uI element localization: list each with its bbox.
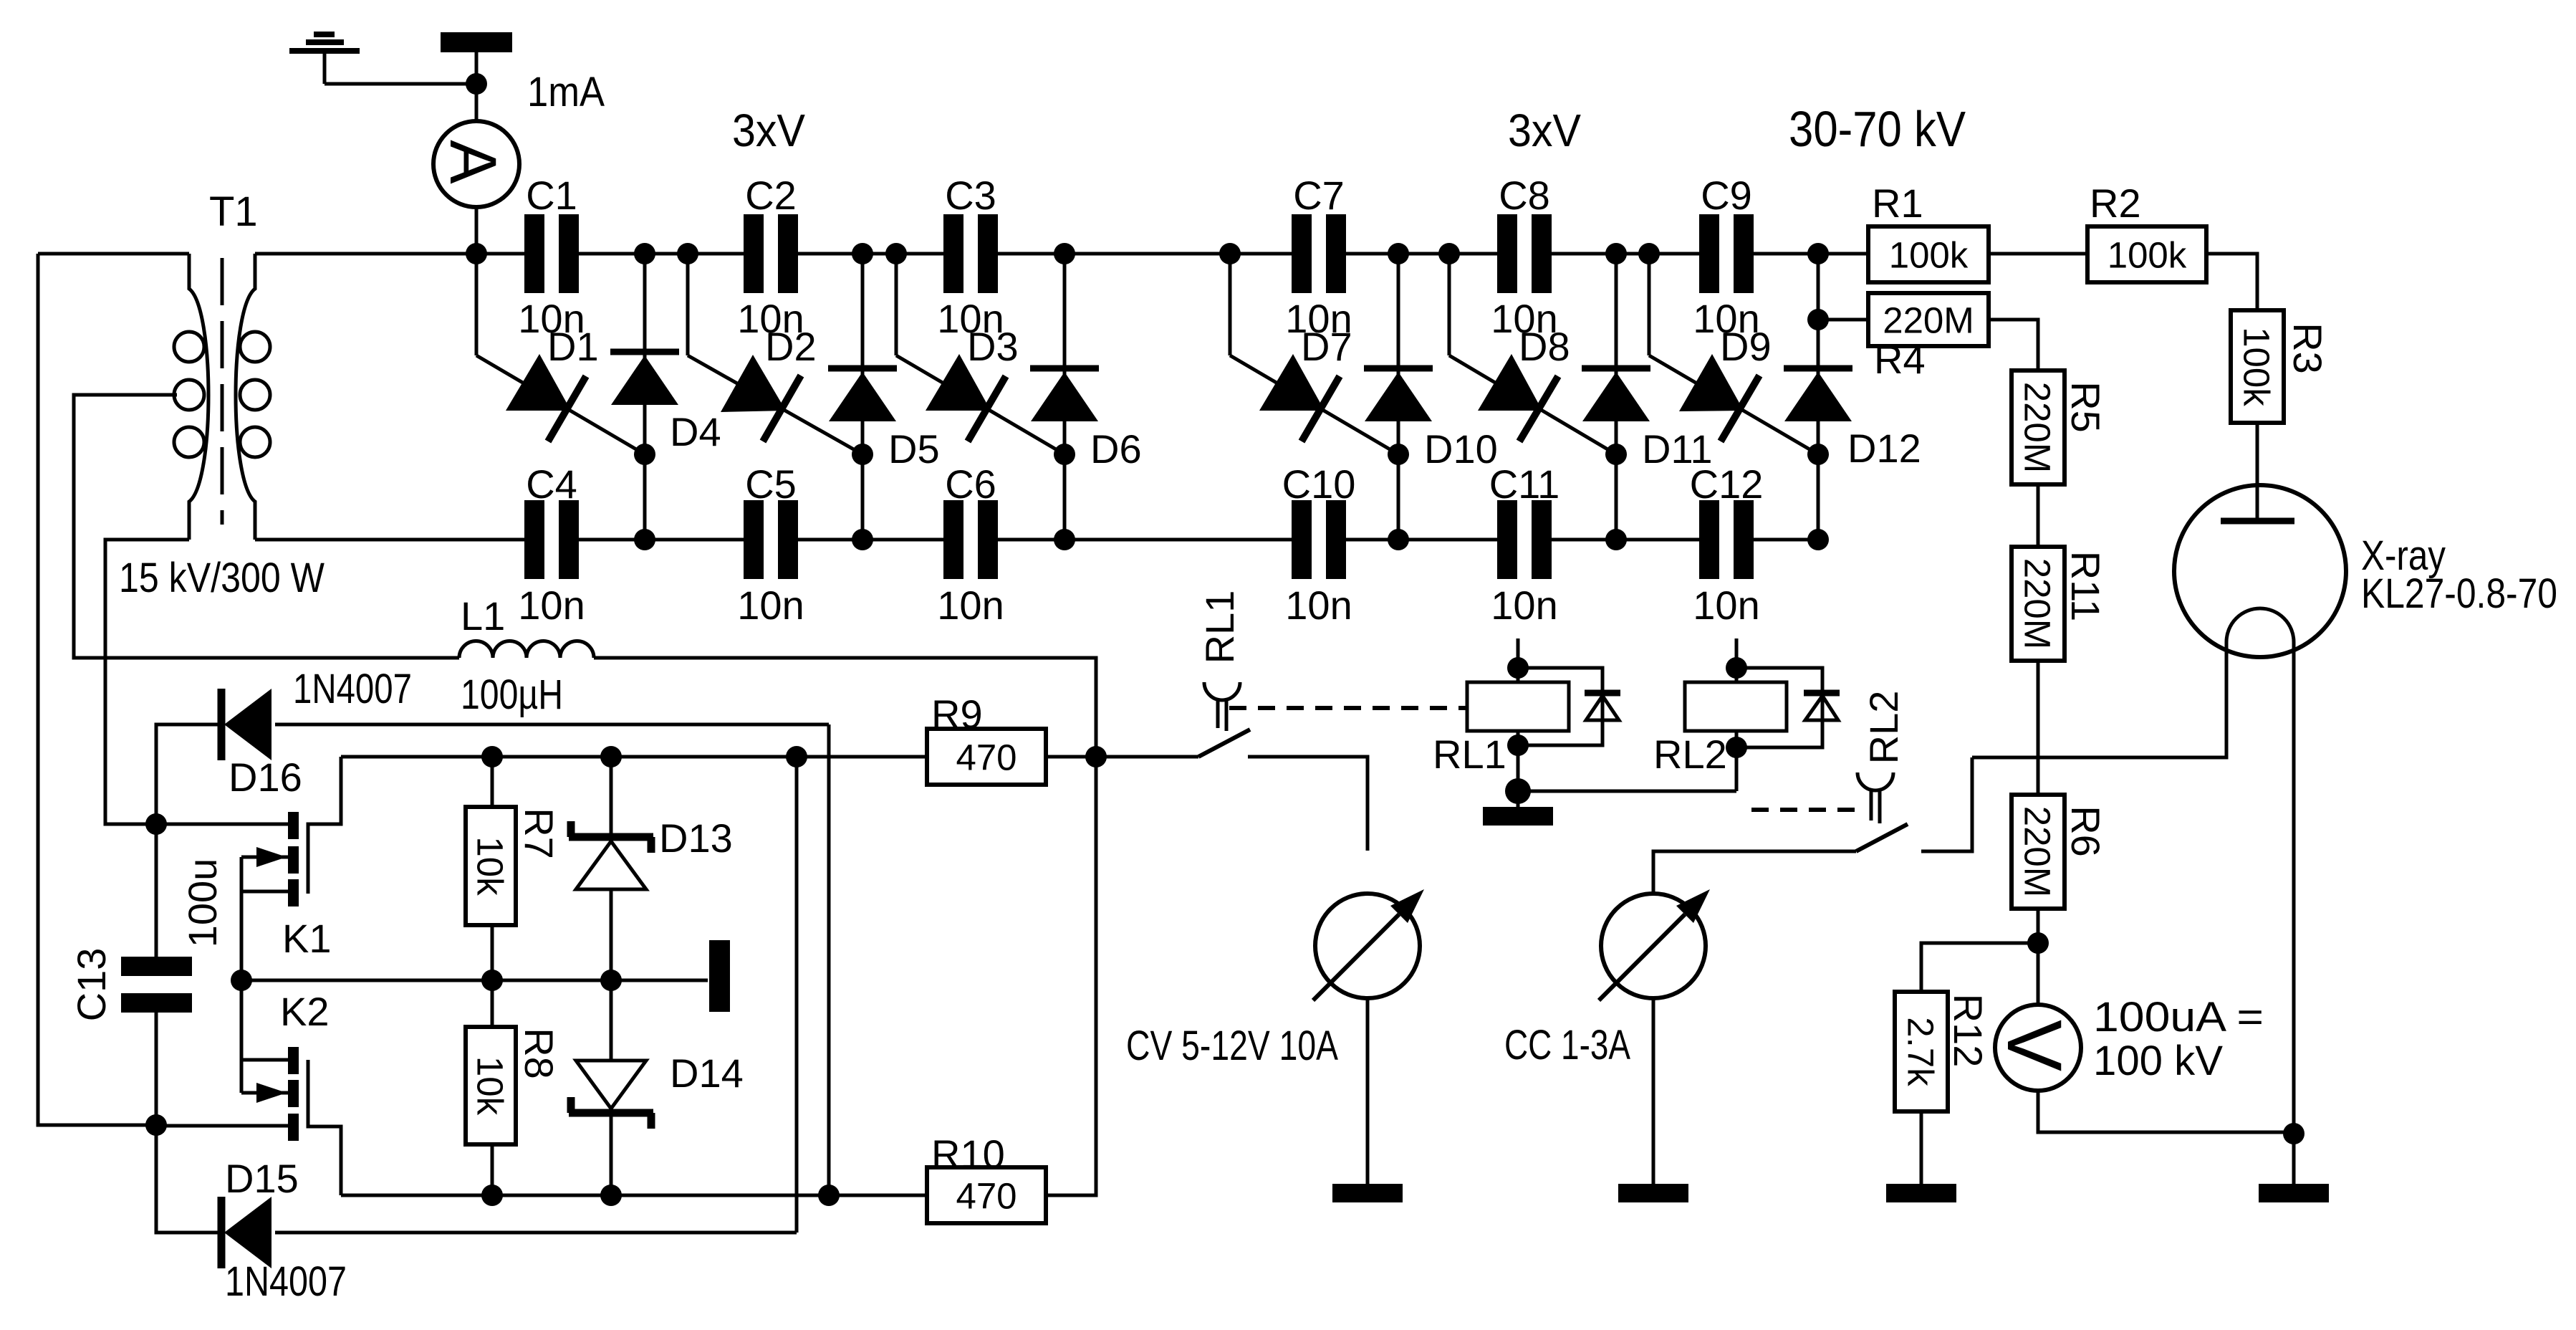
node R7 top <box>481 746 503 767</box>
label C3 <box>945 173 996 218</box>
label R7 <box>516 808 562 859</box>
label L1 <box>461 593 505 638</box>
svg-text:C5: C5 <box>745 461 797 507</box>
svg-text:D5: D5 <box>888 426 940 472</box>
label 3xV right <box>1508 105 1581 156</box>
resistor R2 <box>2087 226 2206 282</box>
svg-text:2.7k: 2.7k <box>1900 1017 1941 1086</box>
capacitor C5 <box>744 500 798 579</box>
wire R2 to R3 <box>2206 254 2257 310</box>
wire RL2 contact <box>1921 757 1972 851</box>
label C5 value 10n <box>737 583 804 628</box>
node D10 bottom junction <box>1388 529 1409 550</box>
diode D3 <box>896 354 1064 454</box>
svg-text:1N4007: 1N4007 <box>225 1258 347 1305</box>
svg-text:R6: R6 <box>2063 805 2108 857</box>
node top rail junction <box>1638 243 1660 264</box>
inductor L1 <box>459 641 594 658</box>
node D12 bottom junction <box>1807 529 1829 550</box>
label C5 <box>745 461 797 507</box>
svg-text:RL2: RL2 <box>1861 691 1906 765</box>
svg-text:R1: R1 <box>1872 181 1923 226</box>
ground CV <box>1332 1184 1403 1202</box>
label D6 <box>1090 426 1142 472</box>
svg-text:D4: D4 <box>670 409 721 454</box>
label X-ray <box>2361 532 2446 579</box>
label D8 <box>1519 324 1570 369</box>
diode D15 <box>221 1197 271 1268</box>
label D15 <box>225 1156 299 1201</box>
wire D16 branch <box>156 724 221 824</box>
svg-text:470: 470 <box>956 1175 1017 1216</box>
svg-text:RL1: RL1 <box>1433 732 1506 777</box>
svg-text:C7: C7 <box>1293 173 1345 218</box>
label 100 kV <box>2093 1038 2223 1084</box>
node C13 bottom junction <box>145 1114 167 1136</box>
wire R3 to anode <box>2256 423 2259 521</box>
label R1 <box>1872 181 1923 226</box>
svg-text:220M: 220M <box>2017 382 2058 474</box>
label KL27-0.8-70 <box>2361 570 2557 617</box>
svg-text:3xV: 3xV <box>732 105 805 156</box>
label C12 value 10n <box>1693 583 1759 628</box>
label D3 <box>967 324 1019 369</box>
wire secondary bottom lead <box>255 538 525 542</box>
wire far-left vertical <box>38 254 156 1125</box>
svg-text:C13: C13 <box>69 948 114 1022</box>
wire D16 vertical down <box>827 724 831 1195</box>
label R3 <box>2285 322 2330 374</box>
wire D15 to vertical <box>275 1231 797 1235</box>
svg-text:1N4007: 1N4007 <box>293 666 412 712</box>
resistor R3 <box>2231 310 2284 423</box>
node D12 mid junction <box>1807 444 1829 465</box>
svg-text:10k: 10k <box>470 836 511 896</box>
ammeter A1 <box>433 121 519 207</box>
svg-text:L1: L1 <box>461 593 505 638</box>
label R11 <box>2063 551 2108 622</box>
label D11 <box>1642 426 1713 472</box>
node RL1 coil top <box>1507 657 1529 679</box>
svg-text:T1: T1 <box>209 188 258 235</box>
diode D7 <box>1230 354 1398 454</box>
label D12 <box>1847 426 1921 471</box>
node D5 bottom junction <box>852 529 873 550</box>
wire R6 to V meter <box>2037 909 2040 1005</box>
wire L1 to R9 node <box>594 658 1096 757</box>
node D14 bottom <box>600 1185 622 1206</box>
svg-text:RL1: RL1 <box>1197 590 1242 664</box>
label R2 <box>2090 181 2141 226</box>
svg-text:R3: R3 <box>2285 322 2330 374</box>
label C2 <box>745 173 797 218</box>
node RL1 coil bottom <box>1507 735 1529 756</box>
svg-text:D14: D14 <box>670 1051 744 1096</box>
resistor R8 <box>466 1027 516 1144</box>
svg-text:100uA =: 100uA = <box>2093 994 2264 1040</box>
label C11 <box>1489 461 1560 507</box>
wire D9 anode stub <box>1648 254 1651 355</box>
resistor R9 <box>927 729 1046 785</box>
label C11 value 10n <box>1491 583 1557 628</box>
wire V meter to tube cathode rail <box>2038 1091 2294 1132</box>
label D1 <box>547 324 599 369</box>
filament <box>2226 608 2294 642</box>
label R8 <box>516 1028 562 1079</box>
label D14 <box>670 1051 744 1096</box>
wire multiplier bottom rail <box>258 538 1818 542</box>
svg-text:3xV: 3xV <box>1508 105 1581 156</box>
meter CV <box>1313 889 1424 1000</box>
label R9 <box>931 692 983 737</box>
resistor R10 <box>927 1167 1046 1223</box>
capacitor C9 <box>1699 214 1754 293</box>
capacitor C2 <box>744 214 798 293</box>
label D9 <box>1720 324 1772 369</box>
plate electrode <box>709 940 730 1012</box>
svg-text:10n: 10n <box>1693 583 1759 628</box>
wire D15 branch <box>156 1125 221 1233</box>
resistor R11 <box>2012 547 2065 661</box>
node terminal junction <box>466 73 487 95</box>
node K1K2 gate junction <box>231 970 252 991</box>
label R4 <box>1874 337 1926 382</box>
wire R7 bottom <box>491 925 494 980</box>
wire top rail <box>258 252 1870 256</box>
svg-text:R8: R8 <box>516 1028 562 1079</box>
diode D2 <box>688 355 862 454</box>
wire primary top lead <box>38 252 189 256</box>
transistor K1 <box>241 757 341 980</box>
label D2 <box>765 324 817 369</box>
wire D4 vertical <box>643 254 647 540</box>
label D10 <box>1424 426 1498 472</box>
wire R10 right <box>1046 757 1096 1195</box>
label RL2 coil <box>1653 732 1727 777</box>
wire D10 vertical <box>1397 254 1400 540</box>
label 1N4007 top <box>293 666 412 712</box>
resistor R6 <box>2012 795 2065 909</box>
node top rail junction <box>677 243 698 264</box>
wire D8 anode stub <box>1448 254 1451 355</box>
label RL1 coil <box>1433 732 1506 777</box>
label C1 <box>526 173 577 218</box>
wire CV meter to ground <box>1366 998 1370 1184</box>
node D6 mid junction <box>1054 444 1075 465</box>
label D5 <box>888 426 940 472</box>
wire CC to RL2 pivot <box>1653 851 1856 894</box>
svg-text:K2: K2 <box>280 989 330 1034</box>
node coils ground junction <box>1505 778 1531 804</box>
ground CC <box>1618 1184 1688 1202</box>
node D6 bottom junction <box>1054 529 1075 550</box>
label C10 <box>1282 461 1356 507</box>
svg-text:D1: D1 <box>547 324 599 369</box>
svg-text:C6: C6 <box>945 461 996 507</box>
label C6 <box>945 461 996 507</box>
node D11 mid junction <box>1605 444 1627 465</box>
svg-text:10n: 10n <box>518 583 585 628</box>
node D5 top junction <box>852 243 873 264</box>
wire R9 right <box>1046 755 1198 759</box>
svg-text:CC 1-3A: CC 1-3A <box>1504 1022 1630 1068</box>
capacitor C6 <box>943 500 998 579</box>
meter CC <box>1599 889 1710 1000</box>
svg-text:100u: 100u <box>180 858 225 948</box>
wire CC meter to ground <box>1652 998 1655 1184</box>
resistor R5 <box>2012 370 2065 484</box>
label 30-70 kV <box>1789 101 1966 157</box>
svg-text:D11: D11 <box>1642 426 1713 472</box>
capacitor C3 <box>943 214 998 293</box>
svg-text:10n: 10n <box>1285 583 1352 628</box>
label C8 <box>1499 173 1550 218</box>
svg-text:C9: C9 <box>1701 173 1752 218</box>
svg-text:D13: D13 <box>659 815 733 861</box>
svg-text:R4: R4 <box>1874 337 1926 382</box>
node K1 drain junction <box>145 813 167 835</box>
svg-text:100µH: 100µH <box>461 671 563 718</box>
label 1N4007 bottom <box>225 1258 347 1305</box>
resistor R4 <box>1868 293 1989 346</box>
switch RL1 <box>1198 682 1250 757</box>
wire D12 vertical <box>1817 254 1820 540</box>
capacitor C7 <box>1292 214 1346 293</box>
node D10 top junction <box>1388 243 1409 264</box>
terminal plate <box>441 32 512 52</box>
node D6 top junction <box>1054 243 1075 264</box>
node R9 right junction <box>1085 746 1107 767</box>
svg-text:10n: 10n <box>937 583 1004 628</box>
svg-text:R10: R10 <box>931 1132 1005 1177</box>
wire ground to terminal node <box>325 82 476 86</box>
diode D5 <box>828 368 897 421</box>
wire D13 vertical <box>610 757 613 980</box>
label RL2 switch <box>1861 691 1906 765</box>
label C10 value 10n <box>1285 583 1352 628</box>
wire gate rail <box>241 979 708 982</box>
label R12 <box>1946 994 1991 1068</box>
node top rail junction <box>885 243 907 264</box>
node top rail junction <box>1438 243 1460 264</box>
wire D5 vertical <box>861 254 865 540</box>
svg-text:10n: 10n <box>737 583 804 628</box>
svg-text:D8: D8 <box>1519 324 1570 369</box>
label D13 <box>659 815 733 861</box>
wire secondary top lead <box>255 252 476 256</box>
transformer T1 <box>174 254 270 540</box>
capacitor C10 <box>1292 500 1346 579</box>
svg-text:15 kV/300 W: 15 kV/300 W <box>119 555 325 601</box>
label K2 <box>280 989 330 1034</box>
label C4 value 10n <box>518 583 585 628</box>
node D13 top <box>600 746 622 767</box>
svg-text:100k: 100k <box>1889 234 1969 275</box>
svg-text:1mA: 1mA <box>527 69 605 115</box>
node R4 tap <box>1807 309 1829 330</box>
svg-text:D9: D9 <box>1720 324 1772 369</box>
svg-text:10n: 10n <box>1491 583 1557 628</box>
node D11 bottom junction <box>1605 529 1627 550</box>
capacitor C8 <box>1497 214 1552 293</box>
label 100uA = <box>2093 994 2264 1040</box>
node D4 mid junction <box>634 444 655 465</box>
label C3 value 10n <box>937 296 1004 341</box>
zener D14 <box>569 1061 653 1129</box>
wire D14 vertical <box>610 980 613 1195</box>
svg-text:D2: D2 <box>765 324 817 369</box>
svg-text:D10: D10 <box>1424 426 1498 472</box>
resistor R7 <box>466 807 516 925</box>
wire R5 to R11 <box>2037 484 2040 547</box>
label C4 <box>526 461 577 507</box>
diode D4 <box>610 352 679 405</box>
ground R12 <box>1886 1184 1956 1202</box>
wire R11 to R6 <box>2037 661 2040 795</box>
wire K2 drain <box>156 1124 288 1128</box>
svg-text:D16: D16 <box>229 755 302 800</box>
svg-text:220M: 220M <box>1883 300 1974 340</box>
svg-text:K1: K1 <box>282 916 332 961</box>
capacitor C11 <box>1497 500 1552 579</box>
wire filament right lead <box>2292 642 2296 1184</box>
node D4 top junction <box>634 243 655 264</box>
diode D16 <box>221 689 271 760</box>
wire R4 left <box>1818 318 1868 322</box>
wire D16 to vertical <box>275 723 829 727</box>
node D4 bottom junction <box>634 529 655 550</box>
svg-text:R2: R2 <box>2090 181 2141 226</box>
diode D8 <box>1449 354 1616 454</box>
label D4 <box>670 409 721 454</box>
wire R8 top <box>491 980 494 1027</box>
resistor R12 <box>1895 992 1948 1111</box>
label C9 value 10n <box>1693 296 1759 341</box>
wire terminal stem <box>475 52 479 84</box>
svg-text:R11: R11 <box>2063 551 2108 622</box>
wire D2 anode stub <box>686 254 690 355</box>
wire lower rail <box>341 1194 927 1197</box>
node top rail junction <box>1219 243 1241 264</box>
node R6 bottom junction <box>2027 932 2049 954</box>
node RL2 coil bottom <box>1726 737 1747 758</box>
wire D11 vertical <box>1615 254 1618 540</box>
wire RL1 coil to ground <box>1517 745 1520 807</box>
svg-text:A: A <box>436 140 509 184</box>
svg-text:C1: C1 <box>526 173 577 218</box>
diode D1 <box>476 354 645 454</box>
node tube bottom junction <box>2283 1123 2305 1144</box>
switch RL2 <box>1856 772 1908 851</box>
svg-text:V: V <box>1991 1020 2078 1071</box>
label C7 value 10n <box>1285 296 1352 341</box>
svg-text:D12: D12 <box>1847 426 1921 471</box>
label 3xV left <box>732 105 805 156</box>
node D12 top junction <box>1807 243 1829 264</box>
svg-text:100 kV: 100 kV <box>2093 1038 2223 1084</box>
svg-text:30-70 kV: 30-70 kV <box>1789 101 1966 157</box>
wire ammeter to rail <box>475 207 479 254</box>
svg-text:R7: R7 <box>516 808 562 859</box>
earth ground <box>289 34 360 84</box>
label C6 value 10n <box>937 583 1004 628</box>
wire D15 vertical up <box>795 757 799 1233</box>
svg-text:C3: C3 <box>945 173 996 218</box>
wire K1 drain <box>156 823 288 826</box>
label C8 value 10n <box>1491 296 1557 341</box>
capacitor C4 <box>524 500 579 579</box>
label C13 <box>69 948 114 1022</box>
wire primary bottom jog <box>105 540 189 824</box>
label D16 <box>229 755 302 800</box>
wire junction to R12 <box>1921 943 2038 992</box>
label CC 1-3A <box>1504 1022 1630 1068</box>
svg-text:R9: R9 <box>931 692 983 737</box>
diode D6 <box>1030 368 1099 421</box>
x-ray tube envelope <box>2174 485 2346 657</box>
svg-text:D7: D7 <box>1301 324 1352 369</box>
svg-text:KL27-0.8-70: KL27-0.8-70 <box>2361 570 2557 617</box>
node top rail junction <box>466 243 487 264</box>
diode D9 <box>1649 354 1818 454</box>
node D14 top <box>600 970 622 991</box>
label T1 <box>209 188 258 235</box>
node R8 bottom <box>481 1185 503 1206</box>
zener D13 <box>569 821 653 889</box>
node D16 vertical bottom <box>818 1185 840 1206</box>
svg-text:470: 470 <box>956 737 1017 778</box>
wire filament left lead <box>1972 642 2226 757</box>
wire D3 anode stub <box>895 254 898 355</box>
label K1 <box>282 916 332 961</box>
label C1 value 10n <box>518 296 585 341</box>
wire D6 vertical <box>1063 254 1067 540</box>
mech link RL1 <box>1229 706 1468 710</box>
capacitor C12 <box>1699 500 1754 579</box>
voltmeter V1 <box>1991 1005 2081 1091</box>
label RL1 switch <box>1197 590 1242 664</box>
wire node to ammeter <box>475 84 479 122</box>
capacitor C13 <box>121 824 192 1125</box>
label R10 <box>931 1132 1005 1177</box>
mech link RL2 <box>1751 808 1856 812</box>
svg-text:D6: D6 <box>1090 426 1142 472</box>
node D10 mid junction <box>1388 444 1409 465</box>
wire R1 to R2 <box>1989 252 2087 256</box>
svg-text:100k: 100k <box>2108 234 2187 275</box>
svg-text:10k: 10k <box>470 1056 511 1116</box>
relay coil RL2 <box>1685 638 1840 791</box>
wire D7 anode stub <box>1229 254 1232 355</box>
wire RL2 coil bottom rail <box>1518 790 1736 793</box>
wire R12 to ground <box>1920 1111 1923 1184</box>
label C9 <box>1701 173 1752 218</box>
wire primary center tap <box>74 395 459 658</box>
wire R4 to R5 <box>1989 320 2038 370</box>
label CV 5-12V 10A <box>1126 1023 1338 1069</box>
resistor R1 <box>1868 226 1989 282</box>
svg-text:220M: 220M <box>2017 558 2058 650</box>
svg-text:CV 5-12V 10A: CV 5-12V 10A <box>1126 1023 1338 1069</box>
label 15 kV/300 W <box>119 555 325 601</box>
label D7 <box>1301 324 1352 369</box>
svg-text:C10: C10 <box>1282 461 1356 507</box>
svg-text:D15: D15 <box>225 1156 299 1201</box>
label R6 <box>2063 805 2108 857</box>
svg-text:C8: C8 <box>1499 173 1550 218</box>
diode D10 <box>1364 368 1433 421</box>
diode D12 <box>1784 368 1852 421</box>
